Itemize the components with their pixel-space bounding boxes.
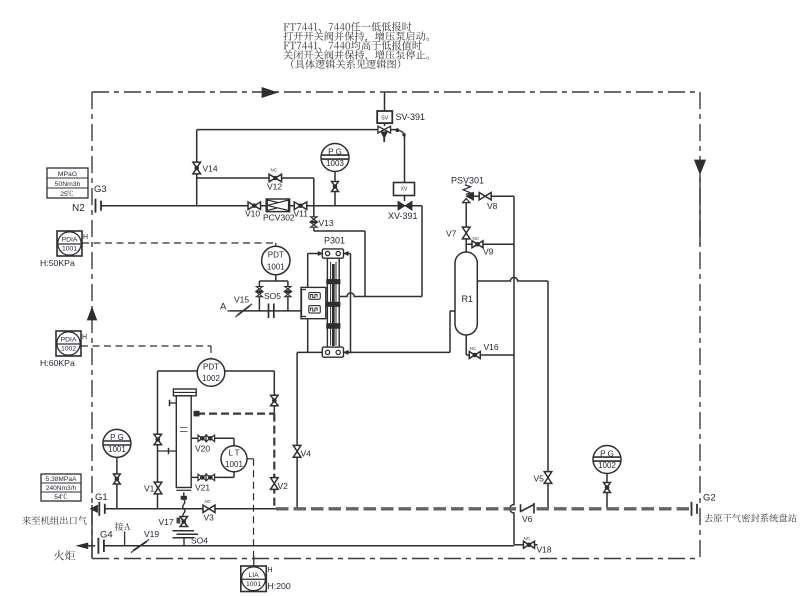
inlet condition table xyxy=(41,474,81,501)
svg-text:G3: G3 xyxy=(94,184,107,195)
svg-text:V13: V13 xyxy=(319,218,334,228)
svg-text:R1: R1 xyxy=(462,294,474,304)
svg-text:V9: V9 xyxy=(483,247,494,257)
svg-text:V5: V5 xyxy=(534,474,545,484)
solenoid SV box xyxy=(377,111,392,123)
valve V4 xyxy=(293,445,301,457)
svg-text:V21: V21 xyxy=(195,483,210,493)
flare line xyxy=(105,545,515,547)
svg-text:V17: V17 xyxy=(159,517,174,527)
svg-text:H: H xyxy=(83,234,88,241)
boundary left solid segment xyxy=(91,505,93,559)
flare arrow xyxy=(77,543,88,549)
R1 top stem xyxy=(465,203,467,252)
pump discharge line xyxy=(297,351,322,353)
valve V1 xyxy=(154,482,162,494)
svg-text:54: 54 xyxy=(54,494,62,501)
valve V9 xyxy=(472,241,483,248)
check valve V6 xyxy=(520,504,522,512)
valves PDT1001 right leg xyxy=(285,287,291,292)
valve V15 xyxy=(238,306,250,315)
suction line A xyxy=(230,310,302,312)
valve SV-391 3-way xyxy=(378,126,391,133)
transmitter PDT-1001 xyxy=(262,246,290,274)
svg-text:PDIA: PDIA xyxy=(62,237,78,244)
wire V9 branch xyxy=(466,243,514,245)
PDT1001 manifold xyxy=(275,275,277,281)
svg-text:1003: 1003 xyxy=(326,159,344,168)
svg-text:V10: V10 xyxy=(245,209,260,219)
V21 line xyxy=(191,476,234,478)
blowdown header x514 xyxy=(513,244,515,355)
gauge PG1002 xyxy=(593,446,621,474)
instrument PDIA-1002 xyxy=(56,331,81,356)
R1 outlet line xyxy=(477,277,548,281)
pump bottom arrow xyxy=(348,351,352,353)
svg-text:V20: V20 xyxy=(195,444,210,454)
label huoju xyxy=(54,550,75,560)
pump top arrows xyxy=(308,253,318,255)
gauge PG1003 xyxy=(321,144,349,172)
main line G1 thin xyxy=(105,508,276,510)
note line 3 xyxy=(284,41,422,50)
svg-text:V7: V7 xyxy=(446,229,457,239)
valve V16 xyxy=(469,352,480,359)
filter right leg xyxy=(273,371,275,414)
filter F top cap xyxy=(173,389,196,396)
svg-text:NC: NC xyxy=(473,236,480,241)
wire V12 bypass xyxy=(197,177,314,179)
valve PG1001 root xyxy=(114,474,121,484)
signal LT1001 to LIA1001 xyxy=(247,458,254,460)
main line G2 thick dashed west xyxy=(276,507,519,510)
valves V21 xyxy=(198,474,207,480)
svg-text:V4: V4 xyxy=(301,449,312,459)
filter left leg upper xyxy=(157,371,159,509)
svg-text:N2: N2 xyxy=(72,203,85,214)
actuator XV box xyxy=(394,183,415,196)
svg-text:NC: NC xyxy=(271,168,278,173)
valve V19 xyxy=(134,542,147,551)
bypass line to SV valve xyxy=(197,129,378,131)
svg-text:P G: P G xyxy=(110,433,124,442)
valve XV-391 xyxy=(398,201,412,210)
label quyuan xyxy=(704,514,796,523)
pump left tie rod xyxy=(307,254,309,353)
skid boundary left xyxy=(91,92,93,559)
instrument PDIA-1001 xyxy=(57,231,82,256)
svg-text:LIA: LIA xyxy=(248,572,259,579)
skid boundary right xyxy=(699,92,701,559)
svg-text:SV-391: SV-391 xyxy=(396,112,426,122)
skid boundary top xyxy=(92,91,700,93)
svg-text:P301: P301 xyxy=(324,236,345,246)
svg-text:H: H xyxy=(268,567,273,574)
svg-text:PDT: PDT xyxy=(203,362,219,371)
N2 condition table xyxy=(47,168,88,198)
filter upper port xyxy=(170,402,177,404)
svg-text:1002: 1002 xyxy=(61,346,76,353)
R1 drain xyxy=(465,335,467,355)
svg-text:1002: 1002 xyxy=(598,461,616,470)
inlet arrow xyxy=(90,505,97,512)
valve filter left leg xyxy=(154,434,161,445)
svg-text:1001: 1001 xyxy=(225,460,243,469)
svg-text:1001: 1001 xyxy=(108,445,126,454)
valve V12 xyxy=(269,174,282,182)
svg-text:NC: NC xyxy=(524,536,531,541)
main line G2 thick dashed east xyxy=(537,507,692,510)
note line 2 xyxy=(283,31,429,42)
V20 line xyxy=(191,437,234,439)
note line 1 xyxy=(284,22,412,31)
valve V18 xyxy=(524,541,535,548)
V18 stub xyxy=(514,544,523,546)
node G3 battery limit xyxy=(95,199,97,213)
svg-text:PCV302: PCV302 xyxy=(263,213,295,223)
gauge PG1001 xyxy=(103,429,131,457)
svg-text:V11: V11 xyxy=(294,209,309,219)
wire V14 branch xyxy=(196,130,198,206)
svg-text:V3: V3 xyxy=(204,513,215,523)
pump pilot bracket xyxy=(302,290,307,317)
svg-text:V19: V19 xyxy=(144,529,159,539)
svg-text:XV-391: XV-391 xyxy=(388,211,418,221)
transmitter PDT-1002 xyxy=(197,359,225,387)
wire XV drop xyxy=(421,206,423,297)
valves V20 xyxy=(198,435,207,441)
signal PDIA1001 to PDT1001 xyxy=(82,242,276,244)
svg-text:G2: G2 xyxy=(703,493,716,504)
svg-text:V1: V1 xyxy=(144,484,155,494)
SV outlet hook xyxy=(391,129,396,131)
valve PG1003 root xyxy=(332,182,339,192)
svg-text:NC: NC xyxy=(205,499,212,504)
svg-text:V15: V15 xyxy=(234,295,249,305)
flow arrow down on right boundary xyxy=(695,160,706,174)
note line 4 xyxy=(283,50,429,61)
svg-text:NC: NC xyxy=(470,346,477,351)
alarm LIA-1001 xyxy=(241,566,266,592)
svg-text:5.38MPaA: 5.38MPaA xyxy=(46,476,77,483)
valve V5 xyxy=(544,472,552,484)
wire PG1001 stem xyxy=(116,457,118,508)
svg-text:PDIA: PDIA xyxy=(61,337,77,344)
svg-text:L T: L T xyxy=(228,449,239,458)
valve PG1002 root xyxy=(604,483,611,493)
filter blowoff dashed line xyxy=(197,413,274,415)
boundary right solid segment xyxy=(699,174,701,245)
wire PG1003 stem xyxy=(334,172,336,206)
label jieA xyxy=(115,522,131,531)
valve V2 xyxy=(271,478,279,490)
transmitter PDT-1002 line xyxy=(158,370,275,372)
filter F body xyxy=(176,396,191,488)
node G1 battery limit xyxy=(98,502,100,516)
svg-text:P G: P G xyxy=(328,147,342,156)
svg-text:XV: XV xyxy=(401,187,408,193)
valve V10 xyxy=(248,202,260,210)
wire SV to XV box xyxy=(404,136,406,183)
vessel R1 xyxy=(455,252,477,335)
svg-text:MPaG: MPaG xyxy=(58,171,77,178)
filter mid port xyxy=(158,450,177,452)
valve V11 xyxy=(294,202,307,210)
svg-text:G4: G4 xyxy=(100,530,113,541)
svg-text:P G: P G xyxy=(600,449,614,458)
svg-text:V18: V18 xyxy=(537,545,552,555)
level transmitter LT-1001 xyxy=(221,446,247,472)
orifice SO5 xyxy=(268,304,270,319)
wire V4 branch xyxy=(296,352,298,508)
relief valve PSV301 xyxy=(463,185,470,195)
valve PDT1002 right root xyxy=(271,395,278,406)
flow arrow right on top boundary xyxy=(262,88,277,98)
valve V7 xyxy=(462,227,470,239)
svg-text:SV: SV xyxy=(381,116,389,122)
svg-text:V14: V14 xyxy=(203,164,218,174)
N2 main line xyxy=(101,205,422,207)
pump right tie rod xyxy=(350,254,352,353)
svg-text:H: H xyxy=(82,334,87,341)
svg-text:240Nm3/h: 240Nm3/h xyxy=(46,485,77,492)
svg-text:PDT: PDT xyxy=(268,250,284,259)
wire PG1002 stem xyxy=(606,474,608,509)
svg-text:1002: 1002 xyxy=(202,374,220,383)
svg-text:H:50KPa: H:50KPa xyxy=(40,258,75,268)
svg-text:G1: G1 xyxy=(95,492,108,503)
pump bottom manifold xyxy=(322,347,343,357)
node G4 battery limit xyxy=(88,545,95,547)
svg-text:50Nm3h: 50Nm3h xyxy=(55,181,81,188)
note line 5 xyxy=(291,59,400,69)
label laizhi xyxy=(22,516,86,525)
svg-text:V12: V12 xyxy=(267,182,282,192)
svg-text:V8: V8 xyxy=(487,201,498,211)
filter drain xyxy=(183,493,185,496)
wire SV box to valve xyxy=(384,123,386,126)
svg-text:1001: 1001 xyxy=(267,262,285,271)
svg-text:H:200: H:200 xyxy=(268,581,291,591)
wire PSV outlet xyxy=(474,195,479,197)
pump drive line from XV xyxy=(339,293,422,297)
valve V14 xyxy=(193,162,201,174)
pump pilot box xyxy=(301,287,326,318)
node G2 battery limit xyxy=(691,502,693,516)
valves PDT1001 left leg xyxy=(256,287,262,292)
svg-text:SO4: SO4 xyxy=(191,536,208,546)
control valve PCV302 xyxy=(266,199,289,212)
svg-text:25: 25 xyxy=(60,191,68,198)
svg-text:SO5: SO5 xyxy=(264,291,281,301)
valve V3 xyxy=(203,505,215,513)
pump top manifold xyxy=(322,249,343,258)
valve V17 xyxy=(180,517,187,527)
svg-text:V2: V2 xyxy=(278,481,289,491)
wire SV riser to boundary xyxy=(384,92,386,111)
svg-text:V16: V16 xyxy=(484,342,499,352)
svg-text:V6: V6 xyxy=(522,514,533,524)
skid boundary bottom xyxy=(92,558,700,560)
silencer SO4 xyxy=(173,530,195,532)
svg-text:1001: 1001 xyxy=(62,246,77,253)
svg-text:H:60KPa: H:60KPa xyxy=(40,358,75,368)
wire XV box stem xyxy=(404,196,406,202)
valve V13 xyxy=(311,217,318,222)
svg-text:A: A xyxy=(220,302,227,313)
pump cylinder xyxy=(327,258,339,347)
svg-text:1001: 1001 xyxy=(246,581,261,588)
valve V8 xyxy=(479,192,491,200)
connection jieA xyxy=(124,532,126,546)
svg-text:PSV301: PSV301 xyxy=(451,176,484,186)
flow arrow up on left boundary xyxy=(87,308,96,321)
signal PDIA1002 to PDT1002 xyxy=(81,345,211,347)
junction square filter port xyxy=(194,411,200,417)
wire V13 branch xyxy=(313,206,315,216)
